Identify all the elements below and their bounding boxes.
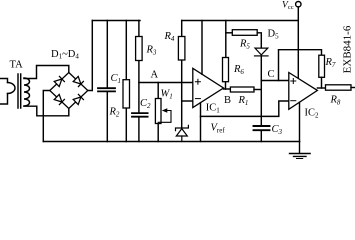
op-amp IC1	[193, 68, 224, 107]
wire bridge right corner to top rail	[88, 21, 93, 91]
wire secondary bottom to bridge bottom corner	[24, 106, 69, 116]
resistor R5 left wire	[226, 32, 233, 34]
diode D2 upper-right	[73, 76, 83, 86]
svg-text:B: B	[224, 95, 231, 106]
resistor R8	[326, 85, 352, 90]
IC1 plus sign	[195, 79, 200, 84]
capacitor C2 plates	[132, 113, 148, 117]
resistor R3	[136, 37, 143, 61]
op-amp IC2	[289, 73, 318, 110]
node B output wire of IC1	[224, 88, 231, 90]
IC2 minus sign	[291, 100, 296, 102]
Vcc post wire	[297, 7, 299, 79]
top rail left segment	[92, 20, 140, 22]
resistor R5 right wire to D5	[257, 33, 261, 48]
capacitor C1 wires	[106, 21, 108, 142]
potentiometer W1 wiper arm	[158, 111, 171, 123]
wire secondary top to bridge top corner	[24, 66, 69, 79]
resistor R8 right wire	[351, 87, 355, 89]
IC2 output wire	[317, 87, 325, 89]
svg-text:TA: TA	[10, 60, 24, 71]
wire bridge left corner to bottom rail	[43, 91, 50, 142]
diode D5	[255, 48, 269, 56]
Vref line	[201, 101, 289, 116]
svg-text:D1~D4: D1~D4	[51, 49, 79, 61]
zener diode DW	[176, 125, 189, 141]
diode D3 lower-left	[54, 94, 64, 104]
resistor R4	[178, 37, 185, 61]
diode D4 lower-right	[73, 94, 83, 104]
resistor R1	[230, 87, 254, 92]
resistor R2	[123, 80, 130, 108]
potentiometer W1 wires	[157, 83, 159, 142]
node A wire to IC1 non-inverting input	[139, 82, 193, 84]
capacitor C1 plates	[98, 88, 115, 91]
capacitor C3 bottom wire	[260, 131, 262, 142]
node C vertical wire	[260, 56, 262, 125]
resistor R5	[232, 30, 257, 36]
transformer TA secondary winding	[24, 78, 30, 106]
capacitor C3 plates	[254, 126, 270, 130]
resistor R4 wires	[181, 21, 183, 129]
ground symbol	[290, 142, 311, 159]
resistor R6	[223, 58, 229, 82]
resistor R2 wires	[125, 21, 127, 142]
Vcc terminal	[296, 1, 301, 6]
bottom ground rail	[43, 141, 299, 143]
svg-text:EXB841-6: EXB841-6	[342, 25, 354, 73]
diode D1 upper-left	[54, 76, 64, 86]
resistor R6 wires	[225, 21, 227, 90]
wire IC1 inverting input	[182, 100, 193, 102]
bridge diamond D1-D4	[50, 73, 88, 109]
IC1 positive supply wire	[201, 21, 203, 75]
resistor R7 bottom wire	[321, 77, 323, 88]
resistor R1 right wire	[254, 89, 261, 91]
IC1 negative supply wire	[200, 103, 202, 142]
potentiometer W1	[155, 99, 161, 124]
resistor R7 top wire	[279, 50, 322, 81]
top rail right segment	[182, 20, 299, 22]
svg-text:C: C	[268, 69, 275, 80]
IC2 negative supply wire	[299, 102, 301, 141]
resistor R3 wires	[138, 21, 140, 114]
transformer TA core	[18, 74, 21, 108]
transformer TA primary winding	[0, 79, 8, 105]
resistor R7	[319, 55, 325, 77]
wire IC2 non-inverting input	[261, 80, 289, 82]
IC1 minus sign	[195, 98, 200, 100]
capacitor C2 bottom wire	[138, 117, 140, 142]
IC2 plus sign	[291, 79, 296, 84]
svg-text:A: A	[151, 70, 159, 81]
